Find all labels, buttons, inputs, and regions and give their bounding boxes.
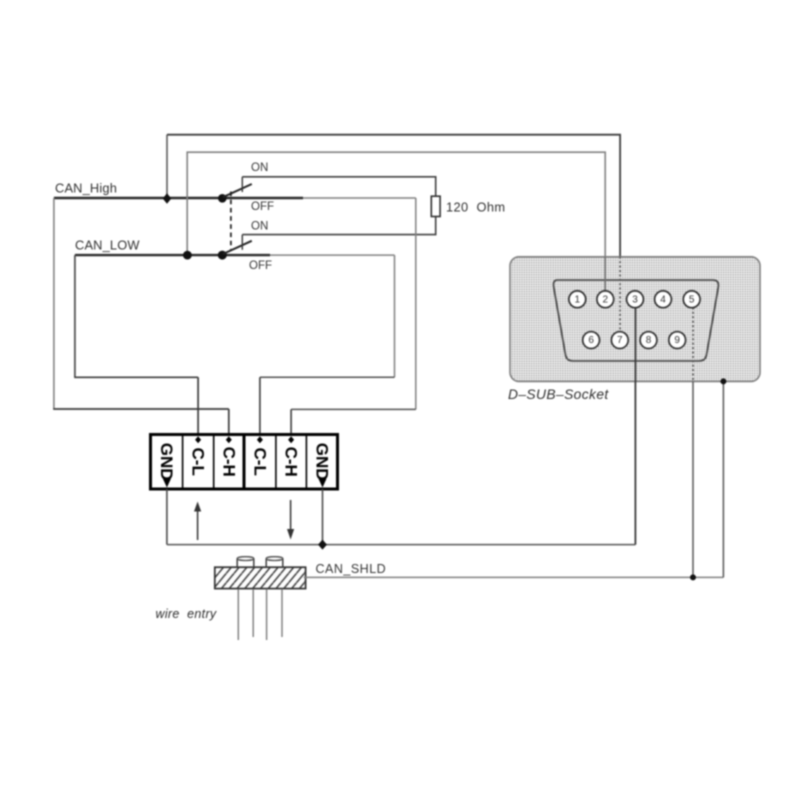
divider X2 [275, 435, 277, 489]
terminal block X2 (C-L C-H GND) [244, 435, 338, 490]
svg-text:OFF: OFF [251, 201, 274, 213]
svg-text:OFF: OFF [249, 260, 272, 272]
D-SUB pin 8 [640, 332, 657, 349]
svg-text:7: 7 [617, 335, 623, 346]
wire into pin2 (inside shell) [604, 257, 606, 292]
wire CAN_LOW OFF continuation to right drop [270, 254, 395, 256]
terminal block X1 (GND C-L C-H) [151, 435, 245, 490]
svg-text:3: 3 [632, 294, 638, 305]
wire from pin5 (dotted inside shell) [692, 308, 694, 382]
wire second bus to D-SUB pin2 [187, 152, 605, 291]
wire CAN_LOW main horizontal [75, 254, 270, 256]
svg-text:wire entry: wire entry [156, 607, 217, 621]
wire entry strand 4 [281, 589, 283, 637]
wire CAN_High OFF continuation to right drop [303, 197, 416, 199]
switch S2 pivot (CAN_LOW) [218, 251, 227, 260]
svg-text:2: 2 [603, 294, 609, 305]
svg-text:GND: GND [157, 443, 176, 481]
terminal entry arrow cell5 [288, 436, 294, 443]
wire OFF2 bottom horizontal to terminal [260, 376, 395, 378]
ferrule 2 [265, 559, 267, 568]
wire entry strand 1 [237, 589, 239, 640]
svg-text:ON: ON [251, 162, 268, 174]
terminal entry arrow cell3 [226, 436, 232, 443]
wire CAN_LOW OFF right vertical [394, 255, 396, 377]
wire from pin3 to GND line [634, 308, 636, 545]
wire CAN_SHLD horizontal [304, 576, 724, 578]
svg-text:9: 9 [674, 335, 680, 346]
wire drop into C-H terminal (right block) [290, 409, 292, 436]
wire GND right drop [322, 489, 324, 544]
D-SUB pin 4 [655, 291, 672, 308]
wire OFF1 bottom horizontal to terminal [291, 408, 416, 410]
svg-text:ON: ON [251, 221, 268, 233]
terminal entry arrow cell4 [257, 436, 263, 443]
wire CAN_LOW left vertical [74, 255, 76, 377]
D-SUB pin 1 [569, 291, 586, 308]
wire entry strand 2 [252, 589, 254, 637]
svg-text:4: 4 [660, 294, 666, 305]
wire CAN_High OFF right vertical [415, 198, 417, 409]
GND exit arrow cell6 [319, 479, 327, 488]
wire from pin5 to CAN_SHLD [692, 381, 694, 577]
node junction J3 on GND line [318, 540, 327, 550]
resistor R1 120 Ohm [431, 196, 440, 216]
ferrule 1 [236, 559, 238, 568]
wire into pin7 (dotted inside shell) [619, 257, 621, 332]
D-SUB pin 6 [583, 332, 600, 349]
switch S2 lever [223, 241, 252, 254]
svg-text:5: 5 [689, 294, 695, 305]
wire S2 ON branch to resistor bottom [242, 217, 435, 235]
node junction J5 on D-SUB shell [720, 378, 726, 384]
D-SUB pin 2 [597, 291, 614, 308]
cable shield clamp (hatched) [215, 567, 306, 588]
wire drop into C-L terminal (right block) [259, 377, 261, 436]
svg-text:GND: GND [312, 443, 331, 481]
node junction J2 on CAN_LOW (dot) [183, 251, 192, 260]
svg-text:C-H: C-H [219, 447, 238, 477]
svg-text:8: 8 [646, 335, 652, 346]
D-SUB pin 3 [627, 291, 644, 308]
arrow up (signal in) [197, 509, 199, 540]
svg-text:C-L: C-L [189, 448, 208, 476]
svg-text:6: 6 [588, 335, 594, 346]
svg-text:C-L: C-L [250, 448, 269, 476]
wire S1 ON branch to resistor [242, 177, 435, 196]
D-SUB pin 7 [611, 332, 628, 349]
divider X2 [305, 435, 307, 489]
svg-text:D–SUB–Socket: D–SUB–Socket [508, 387, 609, 402]
svg-text:C-H: C-H [282, 447, 301, 477]
node junction J1 on CAN_High (diamond) [163, 193, 172, 204]
arrow down (signal out) [290, 500, 292, 532]
wire drop into C-L terminal (left block) [197, 377, 199, 436]
terminal entry arrow cell2 [195, 436, 201, 443]
switch S2 ON contact stub [241, 235, 243, 250]
D-SUB socket shell (stippled) [510, 257, 760, 382]
wire entry strand 3 [266, 589, 268, 640]
switch S1 lever [223, 184, 252, 197]
D-SUB face trapezoid [553, 280, 718, 361]
wire CAN_LOW bottom horizontal to terminal [74, 376, 198, 378]
wire shield to D-SUB shell vertical [722, 381, 724, 577]
svg-text:120 Ohm: 120 Ohm [446, 200, 505, 215]
GND exit arrow cell1 [163, 479, 171, 488]
svg-text:CAN_LOW: CAN_LOW [75, 238, 140, 253]
switch S1 pivot (CAN_High) [218, 194, 227, 203]
svg-text:CAN_SHLD: CAN_SHLD [316, 562, 387, 576]
svg-text:1: 1 [575, 294, 581, 305]
svg-text:CAN_High: CAN_High [55, 181, 117, 196]
wire top bus to D-SUB pin7 [167, 135, 620, 258]
D-SUB pin 5 [683, 291, 700, 308]
node junction J4 on CAN_SHLD [690, 574, 696, 580]
divider X1 [213, 435, 215, 489]
switch S1 ON contact stub [241, 177, 243, 192]
wire drop into C-H terminal (left block) [228, 409, 230, 437]
divider X1 [182, 435, 184, 489]
D-SUB pin 9 [669, 332, 686, 349]
wire CAN_High bottom horizontal to terminal [53, 408, 229, 410]
dashed gang link between switches [230, 192, 232, 251]
wire CAN_High left vertical [53, 198, 55, 409]
wire CAN_High main horizontal [54, 197, 303, 199]
wire GND left drop [166, 489, 168, 544]
wire GND bottom horizontal to D-SUB pin3 [167, 544, 636, 546]
wire top bus riser from CAN_High junction [166, 135, 168, 198]
